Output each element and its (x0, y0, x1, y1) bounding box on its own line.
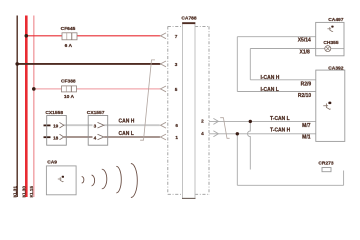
svg-text:CX1557: CX1557 (87, 110, 105, 116)
svg-text:2: 2 (201, 119, 204, 124)
svg-text:CA788: CA788 (181, 15, 197, 21)
svg-text:4: 4 (201, 131, 204, 136)
svg-text:T-CAN L: T-CAN L (270, 116, 290, 122)
svg-text:10 A: 10 A (64, 94, 75, 100)
svg-text:T-CAN H: T-CAN H (270, 127, 291, 133)
svg-text:KL30: KL30 (21, 186, 26, 198)
svg-text:CH355: CH355 (323, 40, 339, 46)
svg-text:I-CAN H: I-CAN H (261, 75, 280, 81)
svg-text:CF388: CF388 (61, 79, 76, 85)
svg-text:1: 1 (175, 135, 178, 140)
svg-text:18: 18 (53, 136, 59, 141)
svg-text:6 A: 6 A (65, 43, 73, 49)
svg-text:6: 6 (175, 123, 178, 128)
svg-text:CAN H: CAN H (119, 119, 135, 125)
svg-text:X1/8: X1/8 (300, 49, 311, 55)
svg-text:M/1: M/1 (302, 135, 311, 141)
svg-text:CX1558: CX1558 (45, 110, 63, 116)
svg-text:R2/9: R2/9 (301, 82, 312, 88)
svg-text:CAN L: CAN L (119, 131, 134, 137)
svg-text:CF645: CF645 (61, 26, 76, 32)
svg-text:X5/14: X5/14 (298, 37, 311, 43)
svg-text:KL31: KL31 (13, 186, 18, 198)
svg-text:3: 3 (175, 62, 178, 67)
svg-text:19: 19 (53, 124, 59, 129)
svg-text:M/7: M/7 (302, 123, 311, 129)
svg-text:4: 4 (94, 136, 97, 141)
svg-text:CA497: CA497 (328, 17, 344, 23)
svg-text:I-CAN L: I-CAN L (261, 87, 279, 93)
svg-text:7: 7 (175, 34, 178, 39)
svg-text:CA392: CA392 (328, 65, 344, 71)
svg-text:5: 5 (175, 87, 178, 92)
svg-text:3: 3 (94, 124, 97, 129)
svg-text:R2/10: R2/10 (298, 93, 312, 99)
svg-text:CA9: CA9 (47, 159, 57, 165)
svg-text:KL15: KL15 (29, 186, 34, 198)
svg-text:CR273: CR273 (318, 161, 334, 167)
